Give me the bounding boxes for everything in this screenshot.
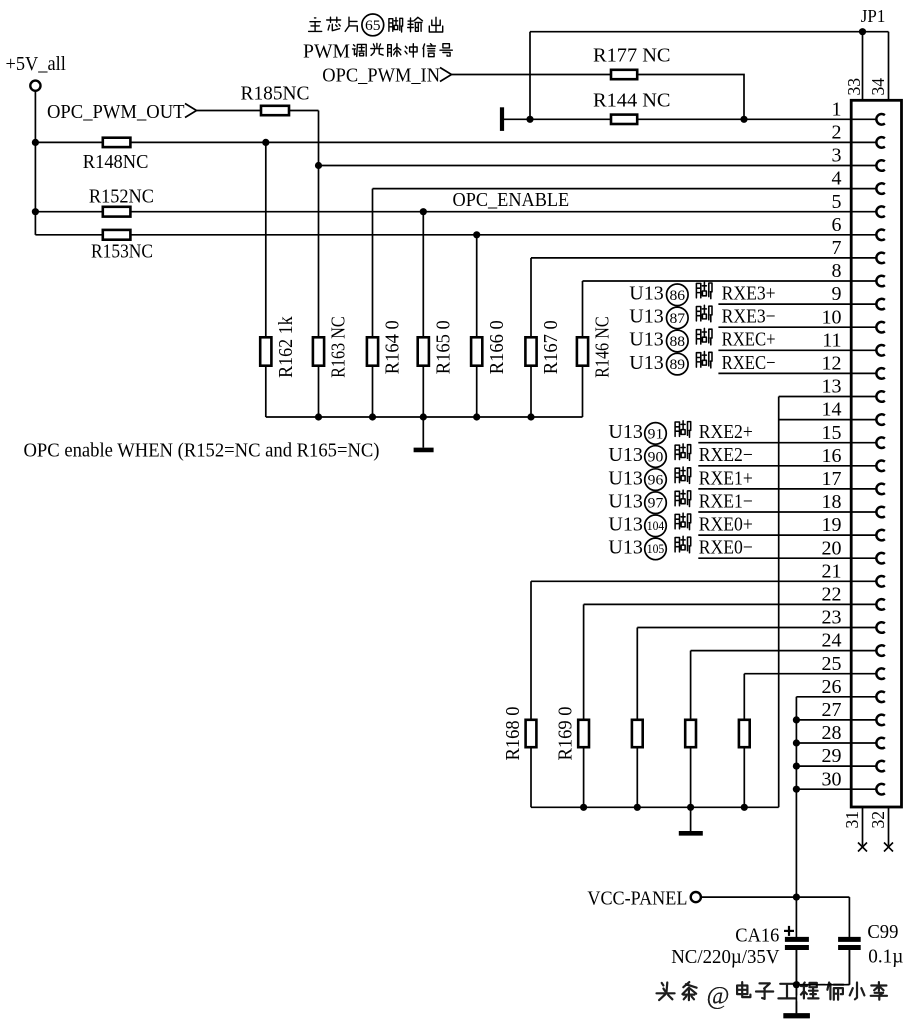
svg-text:RXE3−: RXE3− [722, 306, 776, 328]
resistor R162 (1k) [265, 142, 267, 337]
pin 33 stub [862, 32, 864, 101]
wire pin18 row [698, 511, 851, 513]
wire pin13 row [779, 396, 852, 398]
pin 1 socket [851, 118, 876, 120]
wire pin14 row [779, 419, 852, 421]
svg-text:90: 90 [648, 449, 664, 465]
no-connect X pin 32 [884, 843, 893, 852]
resistor R177 [611, 70, 637, 79]
svg-text:R146 NC: R146 NC [592, 316, 614, 378]
wire to pins 33/34 [530, 31, 889, 33]
svg-text:14: 14 [822, 399, 842, 421]
pin 13 socket [851, 396, 876, 398]
resistor R148 [103, 138, 131, 147]
svg-text:3: 3 [832, 145, 842, 167]
connector JP1 body [851, 100, 901, 807]
wire pin28 row [796, 742, 851, 744]
wire pin2 row [35, 141, 851, 143]
wire CA16 down [795, 948, 797, 1014]
pin 15 socket [851, 442, 876, 444]
wire pin17 row [698, 488, 851, 490]
svg-text:R165 0: R165 0 [432, 320, 454, 374]
svg-text:RXEC−: RXEC− [722, 352, 776, 374]
junction pin27 [793, 716, 800, 723]
pin 29 socket [851, 765, 876, 767]
svg-text:RXE3+: RXE3+ [722, 283, 776, 305]
watermark toutiao @dianzi engineer xiaoli [657, 983, 675, 1001]
pin 24 socket [851, 650, 876, 652]
wire pin11 row [718, 349, 851, 351]
pin 10 socket [851, 326, 876, 328]
svg-text:R162 1k: R162 1k [275, 316, 297, 378]
svg-text:30: 30 [822, 768, 842, 790]
svg-text:U13: U13 [608, 444, 642, 466]
resistor R163 (NC) [313, 337, 324, 365]
junction bus2 [687, 804, 694, 811]
svg-text:JP1: JP1 [861, 6, 886, 26]
svg-text:26: 26 [822, 676, 842, 698]
svg-text:96: 96 [648, 473, 664, 489]
svg-text:R164 0: R164 0 [382, 320, 404, 374]
wire pin7 row [531, 257, 851, 259]
svg-text:U13: U13 [629, 352, 663, 374]
junction bus2 [580, 804, 587, 811]
wire +5V vertical [34, 91, 36, 235]
svg-text:C99: C99 [867, 921, 898, 943]
junction bus1 [315, 413, 322, 420]
svg-text:R163 NC: R163 NC [328, 316, 350, 378]
svg-text:19: 19 [822, 514, 842, 536]
svg-text:28: 28 [822, 722, 842, 744]
svg-text:RXE1−: RXE1− [699, 490, 753, 512]
svg-text:4: 4 [832, 168, 842, 190]
junction bus2 [634, 804, 641, 811]
pin 4 socket [851, 188, 876, 190]
junction VCC / CA16 [793, 894, 800, 901]
junction pin29 [793, 763, 800, 770]
junction R166 / pin6 [473, 231, 480, 238]
svg-text:11: 11 [822, 329, 841, 351]
wire pin30 row [796, 788, 851, 790]
wire vertical pins13/14 to bus2 [778, 397, 780, 808]
svg-text:32: 32 [868, 811, 888, 829]
wire pin10 row [718, 326, 851, 328]
pin 12 socket [851, 372, 876, 374]
svg-text:23: 23 [822, 607, 842, 629]
svg-text:R177 NC: R177 NC [593, 45, 671, 67]
junction bus1 [473, 413, 480, 420]
wire pin25 row [744, 673, 851, 675]
svg-text:8: 8 [832, 260, 842, 282]
svg-text:13: 13 [822, 376, 842, 398]
resistor bank col 690 [690, 651, 692, 720]
svg-text:6: 6 [832, 214, 842, 236]
svg-text:R153NC: R153NC [91, 241, 153, 263]
svg-text:65: 65 [365, 18, 381, 34]
svg-text:22: 22 [822, 584, 842, 606]
wire pin4 row [373, 188, 852, 190]
svg-text:15: 15 [822, 422, 842, 444]
svg-text:U13: U13 [608, 514, 642, 536]
wire pin26 row [796, 696, 851, 698]
svg-text:7: 7 [832, 237, 842, 259]
svg-text:104: 104 [647, 519, 665, 533]
resistor R166 (0) [476, 235, 478, 337]
terminator bar pin1 [500, 107, 504, 131]
wire pin21 row [531, 580, 851, 582]
svg-text:U13: U13 [608, 537, 642, 559]
junction bus1 [369, 413, 376, 420]
no-connect X pin 31 [858, 843, 867, 852]
capacitor CA16 [785, 937, 809, 942]
wire pin27 row [796, 719, 851, 721]
pin 25 socket [851, 673, 876, 675]
pin 7 socket [851, 257, 876, 259]
pin 20 socket [851, 557, 876, 559]
svg-text:U13: U13 [608, 421, 642, 443]
svg-text:1: 1 [832, 98, 842, 120]
junction R162 / pin2 [262, 139, 269, 146]
svg-text:89: 89 [670, 357, 686, 373]
capacitor C99 [848, 897, 850, 939]
resistor bank col 637 [636, 628, 638, 720]
resistor R152 [103, 207, 131, 217]
junction bus2 [741, 804, 748, 811]
wire pin12 row [718, 372, 851, 374]
svg-text:OPC_ENABLE: OPC_ENABLE [453, 189, 570, 211]
wire R185 right [289, 110, 319, 112]
svg-text:R185NC: R185NC [241, 83, 310, 105]
plus sign CA16 [784, 930, 794, 932]
junction CA16/C99 (over watermark) [793, 981, 800, 988]
svg-text:29: 29 [822, 745, 842, 767]
svg-text:33: 33 [844, 78, 864, 96]
pin 17 socket [851, 488, 876, 490]
wire pin6 row [35, 234, 851, 236]
pin 23 socket [851, 627, 876, 629]
svg-text:18: 18 [822, 491, 842, 513]
wire vertical pin26 to CA16 [795, 697, 797, 940]
svg-text:RXEC+: RXEC+ [722, 329, 776, 351]
pin 26 socket [851, 696, 876, 698]
svg-text:87: 87 [670, 311, 686, 327]
svg-text:105: 105 [647, 542, 665, 556]
pin 16 socket [851, 465, 876, 467]
junction pin1 / R177 vertical [740, 116, 747, 123]
svg-text:R167 0: R167 0 [540, 320, 562, 374]
junction CA16 / C99 bottom [793, 981, 800, 988]
svg-text:2: 2 [832, 122, 842, 144]
svg-text:31: 31 [842, 811, 862, 829]
wire pin23 row [637, 627, 851, 629]
svg-text:24: 24 [822, 630, 842, 652]
svg-text:25: 25 [822, 653, 842, 675]
junction R165 / pin5 [420, 208, 427, 215]
wire OPC_PWM_IN to R177 [452, 74, 612, 76]
resistor R153 [103, 230, 131, 240]
resistor R167 (0) [530, 258, 532, 337]
pin 2 socket [851, 141, 876, 143]
wire bus2 [531, 806, 779, 808]
VCC-PANEL terminal [691, 892, 701, 902]
wire pin20 row [698, 557, 851, 559]
pin 14 socket [851, 419, 876, 421]
resistor R169 [583, 604, 585, 719]
svg-text:RXE1+: RXE1+ [699, 467, 753, 489]
pin 31 stub [862, 807, 864, 846]
pin 22 socket [851, 603, 876, 605]
svg-text:NC/220µ/35V: NC/220µ/35V [671, 946, 780, 968]
svg-text:U13: U13 [629, 306, 663, 328]
wire pin1 row [502, 118, 851, 120]
pin 11 socket [851, 349, 876, 351]
pin 27 socket [851, 719, 876, 721]
svg-text:R169 0: R169 0 [555, 707, 577, 761]
svg-text:91: 91 [648, 426, 664, 442]
pin 21 socket [851, 580, 876, 582]
svg-text:R152NC: R152NC [89, 185, 154, 207]
svg-text:16: 16 [822, 445, 842, 467]
wire C99 bottom [796, 984, 849, 986]
junction pin28 [793, 739, 800, 746]
wire pin22 row [584, 603, 852, 605]
svg-text:OPC enable WHEN (R152=NC and R: OPC enable WHEN (R152=NC and R165=NC) [24, 440, 380, 462]
ground below bank [690, 807, 692, 831]
svg-text:OPC_PWM_IN: OPC_PWM_IN [322, 64, 440, 86]
junction +5V / pin5 [32, 208, 39, 215]
junction pin30 [793, 786, 800, 793]
svg-text:5: 5 [832, 191, 842, 213]
svg-text:CA16: CA16 [735, 925, 779, 947]
svg-text:17: 17 [822, 468, 842, 490]
wire OPC_PWM_OUT to R185 [197, 110, 262, 112]
junction bus1 [420, 413, 427, 420]
svg-text:RXE0+: RXE0+ [699, 514, 753, 536]
wire pin19 row [698, 534, 851, 536]
svg-text:88: 88 [670, 334, 686, 350]
wire pin9 row [718, 303, 851, 305]
svg-text:U13: U13 [608, 490, 642, 512]
pin 32 stub [888, 807, 890, 846]
junction pin1 / top vertical [526, 116, 533, 123]
pin 8 socket [851, 280, 876, 282]
pin 9 socket [851, 303, 876, 305]
svg-text:10: 10 [822, 306, 842, 328]
pin 28 socket [851, 742, 876, 744]
svg-text:86: 86 [670, 288, 686, 304]
resistor R146 (NC) [582, 281, 584, 337]
svg-text:OPC_PWM_OUT: OPC_PWM_OUT [47, 101, 185, 123]
resistor R185 [261, 106, 289, 115]
svg-text:21: 21 [822, 560, 842, 582]
resistor R164 (0) [372, 189, 374, 338]
junction R185 / pin3 [315, 162, 322, 169]
ground below R165 [422, 417, 424, 448]
resistor R165 (0) [422, 212, 424, 338]
+5V_all terminal [30, 81, 40, 91]
ground below CA16 [783, 1013, 809, 1018]
svg-text:9: 9 [832, 283, 842, 305]
svg-text:97: 97 [648, 496, 664, 512]
wire pin16 row [698, 465, 851, 467]
pin 18 socket [851, 511, 876, 513]
pin 19 socket [851, 534, 876, 536]
wire pin15 row [698, 442, 851, 444]
svg-text:R148NC: R148NC [83, 151, 149, 173]
arrow OPC_PWM_OUT [185, 104, 197, 118]
svg-text:RXE2+: RXE2+ [699, 421, 753, 443]
annotation: main chip pin 65 outputs [309, 18, 322, 32]
svg-text:R144 NC: R144 NC [593, 90, 671, 112]
resistor bank col 744 [743, 674, 745, 720]
wire pin29 row [796, 765, 851, 767]
svg-text:U13: U13 [629, 283, 663, 305]
wire bus1 [266, 416, 583, 418]
pin 5 socket [851, 211, 876, 213]
pin 3 socket [851, 165, 876, 167]
wire pin5 row [35, 211, 851, 213]
svg-text:PWM: PWM [303, 40, 350, 62]
svg-text:27: 27 [822, 699, 842, 721]
resistor R144 [611, 115, 637, 124]
svg-text:34: 34 [868, 78, 888, 96]
junction +5V / pin2 [32, 139, 39, 146]
svg-text:+5V_all: +5V_all [6, 53, 67, 75]
junction bus1 [527, 413, 534, 420]
pin 6 socket [851, 234, 876, 236]
wire pin3 row [319, 165, 852, 167]
svg-text:U13: U13 [629, 329, 663, 351]
svg-text:R168 0: R168 0 [502, 707, 524, 761]
svg-text:12: 12 [822, 353, 842, 375]
svg-text:0.1µ: 0.1µ [868, 946, 903, 968]
wire pin8 row [583, 280, 852, 282]
wire VCC-PANEL row [701, 896, 849, 898]
wire CA16 down (over watermark) [795, 948, 797, 1014]
wire R185 down to R163 [318, 111, 320, 338]
svg-text:@: @ [707, 983, 730, 1010]
pin 34 stub [888, 32, 890, 101]
wire C99 bottom (over watermark) [796, 984, 849, 986]
junction pin33 top [859, 28, 866, 35]
resistor R168 [530, 581, 532, 720]
pin 30 socket [851, 788, 876, 790]
svg-text:20: 20 [822, 537, 842, 559]
wire vertical x530 [529, 32, 531, 120]
wire R177 to pin1 row [637, 75, 744, 120]
svg-text:RXE2−: RXE2− [699, 444, 753, 466]
svg-text:RXE0−: RXE0− [699, 537, 753, 559]
svg-text:U13: U13 [608, 467, 642, 489]
arrow OPC_PWM_IN [440, 68, 452, 82]
ground below CA16 (over watermark) [783, 1013, 809, 1018]
svg-text:R166 0: R166 0 [486, 320, 508, 374]
wire pin24 row [691, 650, 852, 652]
svg-text:VCC-PANEL: VCC-PANEL [587, 888, 687, 910]
